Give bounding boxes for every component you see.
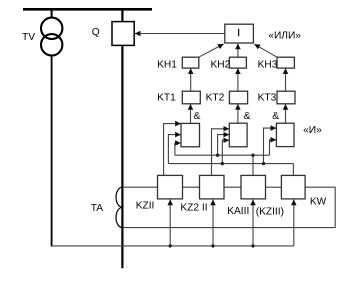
svg-text:KZII: KZII xyxy=(136,201,155,212)
svg-text:(KZIII): (KZIII) xyxy=(256,206,284,217)
svg-text:&: & xyxy=(244,111,251,122)
svg-text:&: & xyxy=(272,111,279,122)
svg-text:«И»: «И» xyxy=(303,125,322,136)
svg-text:KT1: KT1 xyxy=(157,92,176,103)
svg-text:KAIII: KAIII xyxy=(227,206,249,217)
svg-text:TV: TV xyxy=(22,32,35,43)
svg-text:KH2: KH2 xyxy=(211,59,231,70)
svg-text:KT3: KT3 xyxy=(258,92,277,103)
svg-text:«ИЛИ»: «ИЛИ» xyxy=(268,31,301,42)
svg-text:KZ2 II: KZ2 II xyxy=(180,202,207,213)
svg-text:Q: Q xyxy=(92,27,100,38)
svg-text:KW: KW xyxy=(310,197,327,208)
svg-text:KT2: KT2 xyxy=(206,92,225,103)
svg-text:&: & xyxy=(194,111,201,122)
svg-text:KH3: KH3 xyxy=(258,59,278,70)
svg-text:TA: TA xyxy=(91,203,103,214)
svg-text:KH1: KH1 xyxy=(157,59,177,70)
